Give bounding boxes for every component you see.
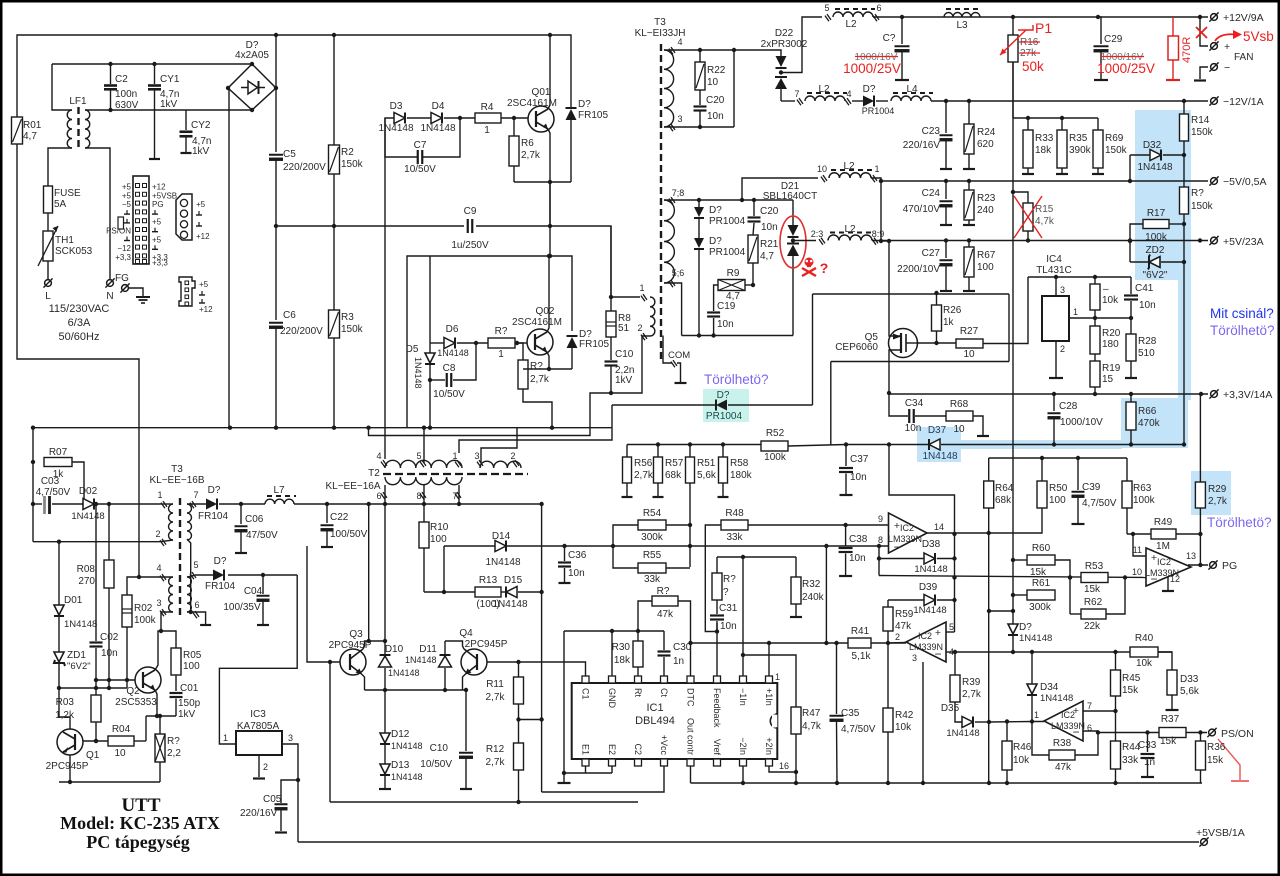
svg-text:1kV: 1kV	[192, 146, 210, 157]
svg-text:Rt: Rt	[633, 688, 643, 697]
resistor R42 10k	[883, 708, 893, 732]
svg-text:R42: R42	[895, 710, 914, 721]
wire Q02 emitter	[547, 352, 549, 369]
svg-text:5,6k: 5,6k	[697, 470, 717, 481]
svg-text:4: 4	[156, 563, 161, 573]
fuse FUSE 5A	[44, 186, 53, 213]
wire column x734	[733, 50, 735, 127]
svg-text:IC2: IC2	[1061, 710, 1075, 720]
wire long vertical x1013	[1012, 62, 1014, 624]
svg-text:+3,3: +3,3	[152, 259, 168, 268]
wire row577 to IC2-4 10-input	[1145, 577, 1147, 579]
svg-text:R40: R40	[1135, 633, 1154, 644]
svg-text:2PC945P: 2PC945P	[46, 761, 89, 772]
svg-text:4: 4	[376, 451, 381, 461]
wire Q3 emitter down	[361, 674, 365, 691]
svg-text:1N4148: 1N4148	[391, 741, 423, 751]
svg-text:R28: R28	[1138, 336, 1157, 347]
svg-text:C33: C33	[1138, 740, 1157, 751]
svg-text:10n: 10n	[568, 568, 585, 579]
svg-text:+12: +12	[199, 305, 213, 314]
svg-text:2200/10V: 2200/10V	[897, 264, 940, 275]
wire Q1 emitter down	[69, 755, 71, 782]
svg-text:1N4148: 1N4148	[492, 599, 527, 610]
diode D5 (vertical)	[429, 343, 431, 353]
svg-text:1kV: 1kV	[615, 375, 633, 386]
svg-text:9: 9	[878, 514, 883, 524]
wire R41 to comparator node	[871, 642, 906, 644]
svg-text:R45: R45	[1122, 673, 1141, 684]
svg-text:Törölhetö?: Törölhetö?	[1210, 323, 1275, 338]
resistor R3	[333, 226, 335, 310]
wire rail 611	[989, 610, 1013, 612]
wire Out contr down	[690, 766, 692, 783]
wire D22 bottom to -12V rail	[780, 89, 782, 101]
svg-text:R11: R11	[486, 679, 504, 690]
wire Q3/Q4 lower diodes	[384, 690, 386, 733]
wire C8 right up to D6 node	[453, 343, 476, 380]
wire Q5 gate row	[916, 342, 956, 344]
svg-text:C24: C24	[922, 188, 941, 199]
svg-text:3: 3	[288, 733, 293, 743]
svg-text:Feedback: Feedback	[712, 688, 722, 728]
svg-text:DTC: DTC	[686, 688, 696, 707]
svg-text:2: 2	[895, 632, 900, 642]
svg-text:R41: R41	[851, 626, 870, 637]
svg-text:1: 1	[639, 283, 644, 293]
wire Q4 collector up	[445, 641, 464, 649]
wire Q01 collector	[548, 35, 550, 109]
wire R4 to Q01 base	[501, 117, 528, 119]
resistor R32 240k	[795, 557, 797, 577]
svg-text:"6V2": "6V2"	[1143, 270, 1168, 281]
IC1 pin Rt (top)	[635, 676, 642, 683]
red resistor 470R fan mod	[1172, 17, 1174, 36]
resistor R58 180k	[722, 445, 724, 458]
IC1 DBL494 body	[572, 683, 778, 759]
wire R17 left to +5V	[1130, 224, 1143, 241]
svg-text:2,7k: 2,7k	[486, 692, 506, 703]
svg-text:4,7/50V: 4,7/50V	[36, 487, 71, 498]
svg-text:R07: R07	[49, 447, 68, 458]
diode D6	[430, 342, 444, 344]
wire x541 vertical	[541, 504, 543, 792]
svg-text:18k: 18k	[614, 655, 631, 666]
wire standby feed left column	[32, 428, 34, 542]
resistor R21 4,7	[753, 223, 754, 235]
svg-text:C2: C2	[633, 743, 643, 755]
svg-text:6/3A: 6/3A	[68, 317, 91, 329]
diode D10 1N4148	[380, 654, 391, 656]
wire Q3 emitter leg to bottom rail	[329, 662, 331, 802]
resistor R44 33k	[1111, 741, 1121, 769]
wire E-node up to rail 631	[563, 631, 565, 773]
wire Q01 emitter rail	[514, 181, 571, 183]
svg-text:10/50V: 10/50V	[420, 759, 452, 770]
inductor L3	[944, 13, 980, 17]
svg-text:PR1004: PR1004	[706, 411, 743, 422]
svg-text:R26: R26	[943, 305, 962, 316]
svg-text:1: 1	[484, 125, 490, 136]
svg-text:150p: 150p	[178, 698, 201, 709]
svg-text:C23: C23	[922, 126, 941, 137]
svg-text:Vref: Vref	[712, 739, 722, 756]
svg-text:R21: R21	[760, 239, 779, 250]
svg-text:+5VSB/1A: +5VSB/1A	[1196, 827, 1245, 839]
opamp IC2 LM339N (7/6 -> 1 facing left)	[1044, 701, 1083, 741]
svg-text:PG: PG	[152, 200, 164, 209]
wire pin2 return to rail	[369, 393, 612, 436]
svg-text:Q4: Q4	[459, 628, 473, 639]
svg-text:68k: 68k	[665, 470, 682, 481]
svg-text:5: 5	[949, 622, 954, 632]
wire +5 node to Q5 drain	[881, 241, 889, 330]
svg-text:R?: R?	[723, 574, 736, 585]
svg-text:2: 2	[263, 762, 268, 772]
svg-text:10n: 10n	[720, 621, 737, 632]
svg-text:KL−EE−16A: KL−EE−16A	[325, 481, 380, 492]
wire ZD2 left to +5V rail	[1129, 241, 1131, 262]
svg-text:1N4148: 1N4148	[420, 123, 455, 134]
svg-text:?: ?	[723, 587, 729, 598]
svg-text:15: 15	[1102, 374, 1114, 385]
svg-text:1k: 1k	[943, 317, 955, 328]
resistor R6	[513, 118, 515, 136]
svg-text:13: 13	[1186, 551, 1196, 561]
resistor R27 10	[956, 339, 983, 348]
svg-text:C28: C28	[1059, 401, 1078, 412]
svg-text:10: 10	[963, 349, 975, 360]
resistor R? ? (feedback)	[716, 557, 718, 573]
wire C01/R05 bottom row	[146, 715, 176, 717]
svg-text:18k: 18k	[1035, 145, 1052, 156]
resistor R22 10	[699, 50, 701, 62]
svg-text:LM339N: LM339N	[909, 642, 943, 652]
svg-text:PR1004: PR1004	[709, 247, 746, 258]
svg-text:R50: R50	[1049, 483, 1068, 494]
wire R51 column down	[689, 483, 691, 567]
resistor R23 240	[968, 181, 970, 190]
wire Q2 emitter	[155, 690, 157, 716]
capacitor C10 2,2n	[610, 337, 612, 360]
svg-text:R36: R36	[1207, 742, 1226, 753]
wire Q4 base row to IC1 C1	[487, 662, 586, 676]
svg-text:47k: 47k	[895, 621, 912, 632]
transformer T2 secondary winding	[385, 477, 462, 485]
highlight blue zone D37	[917, 427, 961, 462]
svg-text:FR105: FR105	[578, 110, 608, 121]
svg-text:C37: C37	[850, 454, 869, 465]
svg-text:1N4148: 1N4148	[391, 772, 423, 782]
capacitor C37 10n	[845, 445, 847, 467]
svg-text:R30: R30	[612, 642, 631, 653]
svg-text:L2: L2	[844, 224, 856, 235]
svg-text:C02: C02	[100, 632, 119, 643]
wire winding7 bottom to pin6	[187, 539, 191, 612]
wire +12V rail	[873, 16, 1208, 18]
svg-text:240k: 240k	[802, 592, 825, 603]
svg-text:R57: R57	[665, 458, 684, 469]
svg-text:Model: KC-235 ATX: Model: KC-235 ATX	[60, 813, 220, 833]
wire top rail to Q01	[276, 34, 550, 36]
svg-text:15k: 15k	[1030, 567, 1047, 578]
svg-text:LM339N: LM339N	[1051, 721, 1085, 731]
svg-text:1: 1	[1034, 710, 1039, 720]
svg-text:1000/10V: 1000/10V	[1060, 417, 1103, 428]
diode D13 1N4148	[380, 764, 390, 774]
svg-text:P1: P1	[1035, 20, 1052, 36]
svg-text:2SC4161M: 2SC4161M	[512, 317, 562, 328]
diode D34 1N4148	[1031, 652, 1033, 684]
IC1 pin −1In (top)	[740, 676, 747, 683]
resistor R03 1,2k	[95, 688, 97, 695]
svg-text:2SC5353: 2SC5353	[115, 697, 157, 708]
svg-text:630V: 630V	[115, 100, 139, 111]
svg-text:10: 10	[817, 164, 827, 174]
svg-text:R04: R04	[112, 724, 131, 735]
wire row 577 long	[879, 576, 1146, 578]
wire box feed to D5/D6	[429, 256, 431, 343]
svg-text:10n: 10n	[761, 222, 778, 233]
svg-text:R54: R54	[643, 508, 662, 519]
svg-text:TH1: TH1	[55, 235, 74, 246]
svg-text:Törölhetö?: Törölhetö?	[1207, 515, 1272, 530]
capacitor C23 220/16V	[945, 101, 947, 133]
svg-text:R14: R14	[1191, 115, 1210, 126]
wire R40 right to D33	[1158, 652, 1172, 670]
capacitor C22 100/50V	[325, 502, 329, 506]
svg-text:1kV: 1kV	[160, 99, 178, 110]
svg-text:−12: −12	[117, 244, 131, 253]
resistor R10 100	[423, 504, 425, 522]
svg-text:6: 6	[876, 3, 881, 13]
svg-text:D?: D?	[214, 556, 227, 567]
wire D? PR1004 row corner	[459, 405, 612, 453]
svg-text:220/16V: 220/16V	[903, 140, 941, 151]
svg-text:?: ?	[820, 260, 829, 276]
wire Q3/Q4 emitter row	[365, 689, 467, 691]
svg-text:16: 16	[779, 761, 789, 771]
svg-text:8:9: 8:9	[872, 229, 885, 239]
svg-text:8: 8	[878, 535, 883, 545]
wire T3 winding 7;8 top pin	[669, 197, 675, 204]
red arrow 5Vsb annotation	[1215, 34, 1236, 41]
svg-text:R66: R66	[1138, 406, 1157, 417]
svg-text:1N4148: 1N4148	[922, 451, 957, 462]
transformer T2 primary winding a	[385, 460, 462, 468]
wire AC top rail	[17, 35, 276, 117]
svg-text:+5: +5	[199, 280, 209, 289]
terminal PG	[1210, 562, 1217, 569]
svg-text:R53: R53	[1085, 561, 1104, 572]
diode D? FR105 on box edge	[567, 335, 578, 337]
svg-text:1: 1	[498, 349, 504, 360]
svg-text:R69: R69	[1105, 133, 1124, 144]
svg-text:R48: R48	[725, 508, 744, 519]
resistor R67 100	[968, 241, 970, 248]
resistor R39 2,7k	[954, 652, 956, 675]
svg-text:D22: D22	[775, 28, 794, 39]
svg-text:C06: C06	[245, 514, 264, 525]
resistor R02 100k	[122, 595, 132, 627]
svg-text:+5: +5	[196, 200, 206, 209]
IC1 pin DTC (top)	[687, 676, 694, 683]
wire IC2-1 6 input	[1083, 731, 1098, 733]
svg-text:2: 2	[155, 529, 160, 539]
svg-text:FR104: FR104	[205, 581, 235, 592]
capacitor C2	[110, 64, 112, 84]
bridge rectifier D? 4x2A05	[228, 64, 276, 110]
capacitor C34 10n	[889, 394, 908, 416]
wire sense to blue column	[1131, 444, 1184, 446]
svg-text:R27: R27	[960, 326, 979, 337]
svg-text:PC tápegység: PC tápegység	[86, 832, 189, 852]
svg-text:R32: R32	[802, 579, 821, 590]
svg-text:D?: D?	[709, 205, 722, 216]
wire R13 row	[424, 591, 475, 593]
svg-text:+2In: +2In	[764, 737, 774, 755]
capacitor CY1	[154, 64, 156, 84]
capacitor C8	[430, 379, 445, 381]
svg-text:D6: D6	[446, 324, 459, 335]
svg-text:2,7k: 2,7k	[521, 150, 541, 161]
resistor R62 22k	[1070, 613, 1081, 615]
svg-text:D?: D?	[717, 390, 730, 401]
wire R9 left to C19	[714, 285, 718, 311]
capacitor C7	[385, 118, 417, 157]
resistor R63 100k	[1126, 458, 1128, 481]
wire bridge right corner to C5 column	[275, 35, 277, 88]
resistor R8 51	[610, 297, 612, 311]
wire IC2-4 ground pin	[1167, 577, 1169, 590]
wire -12V rail east	[931, 100, 1208, 102]
svg-text:2,7k: 2,7k	[1208, 496, 1228, 507]
IC1 pin +Vcc (bottom)	[661, 759, 668, 766]
svg-text:1,2k: 1,2k	[55, 710, 75, 721]
svg-text:1kV: 1kV	[178, 709, 196, 720]
wire IC4 pin3	[1055, 277, 1057, 296]
resistor R57 68k	[657, 445, 659, 458]
wire y792 Vcc row	[542, 766, 664, 792]
svg-text:R01: R01	[23, 120, 42, 131]
svg-text:220/200V: 220/200V	[280, 326, 323, 337]
transformer T3 primary winding	[650, 297, 655, 336]
svg-text:100: 100	[977, 262, 994, 273]
capacitor C06 47/50V	[240, 504, 242, 524]
wire +1In column	[768, 643, 770, 676]
svg-text:5,6k: 5,6k	[1180, 686, 1200, 697]
svg-text:R?: R?	[1191, 188, 1204, 199]
wire LF1 left top	[52, 64, 72, 110]
svg-text:R37: R37	[1161, 714, 1180, 725]
svg-text:R24: R24	[977, 127, 996, 138]
svg-text:R47: R47	[802, 708, 821, 719]
svg-text:10n: 10n	[101, 648, 118, 659]
svg-text:T2: T2	[368, 468, 380, 479]
enclosure box around Q02 oscillator	[407, 256, 572, 428]
svg-text:E2: E2	[607, 744, 617, 755]
svg-text:10k: 10k	[1013, 755, 1030, 766]
svg-text:IC2: IC2	[900, 523, 914, 533]
svg-text:15k: 15k	[1084, 584, 1101, 595]
svg-text:4: 4	[846, 89, 851, 99]
IC1 pin Ct (top)	[661, 676, 668, 683]
svg-text:IC3: IC3	[250, 709, 266, 720]
svg-text:2: 2	[510, 451, 515, 461]
svg-text:R22: R22	[707, 65, 726, 76]
inductor L7	[265, 499, 294, 504]
resistor R9 4,7	[745, 284, 753, 286]
svg-text:Q02: Q02	[536, 306, 555, 317]
svg-text:470k: 470k	[1138, 418, 1161, 429]
wire IC1 E1/E2 ground	[585, 766, 587, 773]
svg-text:100k: 100k	[134, 615, 157, 626]
svg-text:+: +	[935, 627, 941, 639]
svg-text:R?: R?	[530, 361, 543, 372]
svg-text:10: 10	[1132, 567, 1142, 577]
resistor R? 150k (blue)	[1180, 187, 1189, 214]
svg-text:DBL494: DBL494	[635, 715, 675, 727]
opamp IC2 LM339N (5/4/2 facing left)	[906, 622, 946, 662]
resistor R14 150k	[1183, 101, 1185, 114]
wire +5VSB bottom rail	[298, 841, 1199, 843]
wire R01 down to bottom loop	[17, 144, 139, 576]
svg-text:C6: C6	[283, 310, 296, 321]
thermistor TH1 SCK053	[43, 231, 53, 261]
wire to L4	[876, 100, 888, 102]
wire +3.3 sense row	[846, 444, 928, 446]
wire bridge left corner down	[228, 88, 229, 428]
svg-text:C20: C20	[706, 95, 725, 106]
wire R11/R12 junction to x541	[519, 719, 542, 721]
svg-text:1N4148: 1N4148	[413, 357, 423, 389]
wire Q4 emitter down	[463, 674, 467, 691]
opamp IC2 LM339N (9/8/14)	[889, 513, 928, 553]
svg-text:T3: T3	[654, 17, 666, 28]
svg-text:D11: D11	[419, 644, 437, 655]
svg-text:4,7: 4,7	[23, 131, 37, 142]
svg-text:47k: 47k	[1055, 762, 1072, 773]
IC1 pin +2In (bottom)	[766, 759, 773, 766]
svg-text:4,7/50V: 4,7/50V	[841, 724, 876, 735]
terminal FAN +	[1211, 43, 1218, 50]
svg-text:1n: 1n	[673, 656, 684, 667]
svg-text:68k: 68k	[995, 495, 1012, 506]
svg-text:PS/ON: PS/ON	[1221, 728, 1254, 740]
capacitor CY2	[185, 110, 187, 130]
wire IC2-3 output to R41	[888, 642, 906, 645]
terminal -12V/1A	[1211, 98, 1218, 105]
resistor R45 15k	[1115, 652, 1117, 670]
svg-text:C10: C10	[430, 743, 449, 754]
svg-text:4: 4	[677, 37, 682, 47]
wire rail C2 CY1	[52, 63, 252, 65]
wire D3-D4	[407, 117, 431, 119]
svg-text:PR1004: PR1004	[862, 106, 895, 116]
svg-text:D?: D?	[863, 84, 876, 95]
wire Feedback column	[716, 623, 718, 676]
wire IC2-3 pin3 down	[922, 662, 924, 783]
capacitor C38 10n	[845, 525, 847, 546]
svg-text:10n: 10n	[707, 111, 724, 122]
wire rail y631	[564, 630, 664, 632]
svg-text:Mit csinál?: Mit csinál?	[1210, 306, 1274, 321]
svg-text:C36: C36	[568, 550, 587, 561]
wire y546 row	[444, 545, 889, 547]
svg-text:115/230VAC: 115/230VAC	[49, 303, 110, 315]
diode D12 1N4148	[380, 733, 390, 743]
svg-text:47/50V: 47/50V	[246, 530, 278, 541]
